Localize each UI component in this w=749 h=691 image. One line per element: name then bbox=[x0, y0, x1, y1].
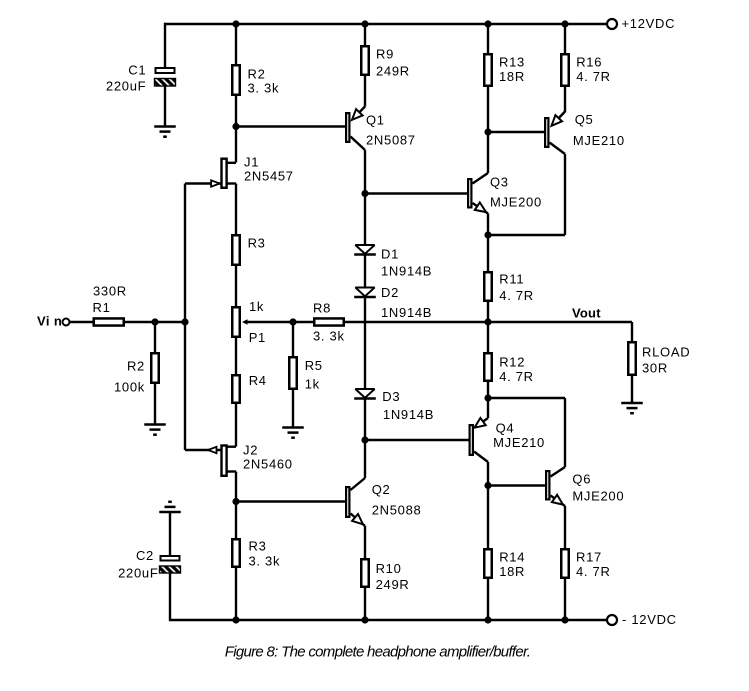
ground R5 bbox=[282, 426, 304, 429]
svg-text:1N914B: 1N914B bbox=[383, 407, 434, 422]
wire R10 to rail bbox=[364, 588, 366, 620]
transistor Q4 MJE210 bbox=[487, 398, 489, 418]
wire Q5 collector down bbox=[564, 154, 566, 235]
resistor RLOAD 30R bbox=[628, 342, 636, 375]
svg-text:+12VDC: +12VDC bbox=[622, 16, 676, 31]
wire R2 bias top bbox=[154, 322, 156, 352]
resistor R1 330R bbox=[94, 318, 124, 325]
wire -12V bottom rail bbox=[170, 619, 607, 621]
node J2/Q2-base/R3 bbox=[232, 498, 239, 505]
terminal -12VDC bbox=[607, 615, 617, 625]
resistor R13 18R bbox=[484, 54, 492, 86]
svg-text:D3: D3 bbox=[382, 389, 400, 404]
svg-text:C2: C2 bbox=[136, 548, 154, 563]
svg-text:2N5088: 2N5088 bbox=[372, 502, 422, 517]
svg-text:249R: 249R bbox=[376, 577, 410, 592]
wire wiper bbox=[246, 321, 293, 323]
wire Q4 base bbox=[365, 439, 469, 441]
wire Q2 emitter to R10 bbox=[364, 526, 366, 558]
wire Q3 base bbox=[365, 192, 467, 194]
capacitor C1 bbox=[156, 68, 175, 73]
transistor Q2 2N5088 bbox=[351, 478, 366, 490]
node R12/Q4e/Q6c bbox=[484, 394, 491, 401]
node input/R2 bbox=[151, 318, 158, 325]
wire Vout corner down bbox=[631, 322, 633, 341]
svg-text:18R: 18R bbox=[499, 564, 525, 579]
svg-text:Q1: Q1 bbox=[366, 113, 385, 128]
wire C1 to ground bbox=[164, 86, 166, 127]
wire mid R8 to Vout corner bbox=[345, 321, 632, 323]
wire R5 top bbox=[292, 322, 294, 356]
svg-text:3. 3k: 3. 3k bbox=[248, 81, 280, 96]
svg-text:249R: 249R bbox=[376, 64, 410, 79]
wire R2 bottom bbox=[235, 96, 237, 127]
resistor R11 4.7R bbox=[484, 272, 492, 301]
wire mid to D3 bbox=[364, 322, 366, 389]
svg-text:Vi n: Vi n bbox=[37, 314, 62, 329]
svg-text:D1: D1 bbox=[381, 247, 399, 262]
wiper arrow P1 bbox=[242, 319, 248, 325]
node R2/J1/Q1-base bbox=[232, 123, 239, 130]
svg-text:MJE200: MJE200 bbox=[490, 194, 542, 209]
node R14/rail bbox=[484, 616, 491, 623]
svg-text:18R: 18R bbox=[499, 69, 525, 84]
wire R2 top bbox=[235, 24, 237, 64]
wire R14 to rail bbox=[487, 579, 489, 620]
wire R13 to Q3 collector bbox=[487, 87, 489, 173]
svg-text:Q3: Q3 bbox=[490, 175, 509, 190]
svg-text:2N5460: 2N5460 bbox=[243, 456, 293, 471]
potentiometer P1 1k bbox=[232, 307, 240, 337]
svg-text:Q4: Q4 bbox=[496, 421, 515, 436]
node R17/rail bbox=[561, 616, 568, 623]
svg-text:R8: R8 bbox=[313, 300, 331, 315]
node wiper/R5/R8 bbox=[289, 318, 296, 325]
svg-text:220uF: 220uF bbox=[106, 78, 146, 93]
resistor R17 4.7R bbox=[561, 549, 569, 578]
node Q5 base bbox=[484, 128, 491, 135]
svg-text:2N5457: 2N5457 bbox=[244, 169, 294, 184]
resistor R8 3.3k bbox=[314, 318, 344, 325]
svg-text:R1: R1 bbox=[93, 300, 111, 315]
node R9/rail top bbox=[361, 20, 368, 27]
resistor R4 bbox=[232, 375, 240, 403]
wire R4 to J2 bbox=[235, 404, 237, 447]
wire Q6 emitter to R17 bbox=[564, 506, 566, 548]
wire J1 drain vertical bbox=[235, 127, 237, 163]
wire C2 to rail bbox=[169, 573, 171, 621]
diode D1 1N914B bbox=[355, 245, 374, 254]
wire J1 source down bbox=[235, 184, 237, 235]
resistor R16 4.7R bbox=[561, 54, 569, 86]
svg-text:RLOAD: RLOAD bbox=[642, 344, 690, 359]
node gate/input bbox=[181, 318, 188, 325]
wire Q2 base bbox=[236, 500, 345, 502]
svg-text:4. 7R: 4. 7R bbox=[499, 369, 534, 384]
resistor R9 249R bbox=[361, 46, 369, 75]
wire Q1 collector down bbox=[364, 150, 366, 194]
resistor R14 18R bbox=[484, 549, 492, 578]
wire R11 to Vout bbox=[487, 302, 489, 322]
svg-text:3. 3k: 3. 3k bbox=[313, 329, 345, 344]
svg-text:MJE200: MJE200 bbox=[572, 488, 624, 503]
svg-text:4. 7R: 4. 7R bbox=[499, 288, 534, 303]
svg-text:R4: R4 bbox=[249, 373, 267, 388]
node D3/Q4-base/Q2 bbox=[361, 436, 368, 443]
wire R1 to gate line bbox=[125, 321, 185, 323]
transistor Q5 MJE210 bbox=[558, 112, 565, 120]
svg-text:C1: C1 bbox=[128, 62, 146, 77]
wire Q6 base bbox=[488, 484, 545, 486]
wire Q1 base bbox=[236, 125, 345, 127]
node R3/rail bbox=[232, 616, 239, 623]
transistor Q3 MJE200 bbox=[473, 173, 489, 184]
resistor R3 bbox=[232, 235, 240, 265]
wire RLOAD to ground bbox=[631, 376, 633, 404]
wire to R3 bottom bbox=[235, 502, 237, 539]
wire Q5 base bbox=[488, 131, 544, 133]
JFET J2 2N5460 bbox=[227, 446, 236, 448]
resistor R2 3.3k bbox=[232, 65, 240, 95]
svg-text:R5: R5 bbox=[305, 358, 323, 373]
svg-text:1N914B: 1N914B bbox=[381, 305, 432, 320]
node R2/rail top bbox=[232, 20, 239, 27]
wire to Q2 collector bbox=[364, 440, 366, 478]
diode D2 1N914B bbox=[355, 288, 374, 297]
svg-text:4. 7R: 4. 7R bbox=[576, 564, 611, 579]
svg-text:2N5087: 2N5087 bbox=[366, 132, 416, 147]
wire wiper node to R8 bbox=[293, 321, 313, 323]
transistor Q6 MJE200 bbox=[551, 467, 566, 477]
resistor R2 100k bbox=[151, 353, 159, 383]
svg-text:Vout: Vout bbox=[572, 305, 601, 320]
node R13/rail top bbox=[484, 20, 491, 27]
svg-text:- 12VDC: - 12VDC bbox=[622, 612, 677, 627]
svg-text:R16: R16 bbox=[576, 55, 602, 70]
svg-text:R3: R3 bbox=[249, 539, 267, 554]
wire to D1 bbox=[364, 194, 366, 246]
wire J2 drain down bbox=[235, 472, 237, 502]
wire R12 top bbox=[487, 322, 489, 352]
svg-text:R12: R12 bbox=[499, 355, 525, 370]
svg-text:220uF: 220uF bbox=[118, 565, 158, 580]
svg-text:R11: R11 bbox=[499, 272, 524, 287]
wire gate line vertical bbox=[184, 184, 186, 451]
svg-text:Q2: Q2 bbox=[372, 482, 391, 497]
node Vout bbox=[484, 318, 491, 325]
wire J2 gate bbox=[185, 449, 221, 451]
svg-text:R14: R14 bbox=[499, 550, 525, 565]
svg-text:R2: R2 bbox=[127, 359, 145, 374]
svg-text:R3: R3 bbox=[248, 236, 266, 251]
resistor R12 4.7R bbox=[484, 353, 492, 381]
svg-text:Figure 8: The complete headpho: Figure 8: The complete headphone amplifi… bbox=[225, 644, 530, 661]
svg-text:MJE210: MJE210 bbox=[493, 435, 545, 450]
svg-text:Q5: Q5 bbox=[575, 112, 594, 127]
wire input bbox=[70, 321, 94, 323]
terminal +12VDC bbox=[607, 19, 617, 29]
wire R3 to P1 bbox=[235, 266, 237, 306]
wire R9 top bbox=[364, 24, 366, 45]
terminal Vi n bbox=[63, 319, 70, 326]
node R10/rail bbox=[361, 616, 368, 623]
wire R5 to ground bbox=[292, 390, 294, 428]
diode D3 1N914B bbox=[355, 389, 374, 398]
wire R12 bottom bbox=[487, 382, 489, 398]
wire R2 bias to ground bbox=[154, 384, 156, 425]
wire Q6 collector horizontal bbox=[488, 397, 565, 399]
ground C1 bbox=[154, 125, 176, 128]
svg-text:100k: 100k bbox=[114, 380, 145, 395]
wire +12V top rail bbox=[164, 23, 607, 25]
wire Q4 collector down bbox=[487, 462, 489, 486]
wire R11 top bbox=[487, 235, 489, 271]
svg-text:J1: J1 bbox=[244, 155, 259, 170]
svg-text:4. 7R: 4. 7R bbox=[576, 69, 611, 84]
resistor R5 1k bbox=[289, 357, 297, 389]
svg-text:P1: P1 bbox=[249, 330, 266, 345]
svg-text:MJE210: MJE210 bbox=[573, 133, 625, 148]
wire C1 drop bbox=[164, 23, 166, 67]
ground RLOAD bbox=[621, 402, 643, 405]
JFET J1 2N5457 bbox=[227, 162, 236, 164]
wire D3 to node bbox=[364, 399, 366, 441]
wire R17 to rail bbox=[564, 579, 566, 620]
svg-text:3. 3k: 3. 3k bbox=[249, 554, 281, 569]
svg-text:R10: R10 bbox=[376, 561, 402, 576]
wire P1 to R4 bbox=[235, 338, 237, 374]
wire Q3 emitter down bbox=[487, 214, 489, 236]
capacitor C2 bbox=[161, 556, 180, 561]
wire R9 to Q1 emitter bbox=[364, 76, 366, 107]
wire D2 to mid bbox=[364, 297, 366, 322]
svg-text:1k: 1k bbox=[305, 377, 320, 392]
resistor R10 249R bbox=[361, 559, 369, 587]
wire Q5 collector horizontal bbox=[488, 234, 565, 236]
wire R13 top bbox=[487, 24, 489, 53]
svg-text:30R: 30R bbox=[642, 361, 668, 376]
wire R3 to rail bbox=[235, 568, 237, 620]
wire R16 top bbox=[564, 24, 566, 53]
wire D1 to D2 bbox=[364, 255, 366, 288]
svg-text:1N914B: 1N914B bbox=[381, 264, 432, 279]
svg-text:R9: R9 bbox=[376, 46, 394, 61]
svg-text:Q6: Q6 bbox=[572, 472, 591, 487]
wire R16 to Q5 emitter bbox=[564, 87, 566, 112]
svg-text:R17: R17 bbox=[576, 550, 602, 565]
node Q4c/Q6-base/R14 bbox=[484, 482, 491, 489]
node Q1/D1/Q3-base bbox=[361, 190, 368, 197]
ground C2 inverted bbox=[159, 511, 181, 514]
svg-text:D2: D2 bbox=[381, 285, 399, 300]
node R16/rail top bbox=[561, 20, 568, 27]
wire ground to C2 bbox=[169, 512, 171, 555]
ground R2 bbox=[144, 423, 166, 426]
resistor R3 3.3k bbox=[232, 539, 240, 567]
svg-text:R2: R2 bbox=[248, 67, 266, 82]
transistor Q1 2N5087 bbox=[358, 107, 365, 114]
wire R14 top bbox=[487, 486, 489, 549]
svg-text:330R: 330R bbox=[93, 284, 127, 299]
node Q3e/Q5c/R11 bbox=[484, 231, 491, 238]
svg-text:1k: 1k bbox=[249, 299, 264, 314]
svg-text:R13: R13 bbox=[499, 55, 525, 70]
